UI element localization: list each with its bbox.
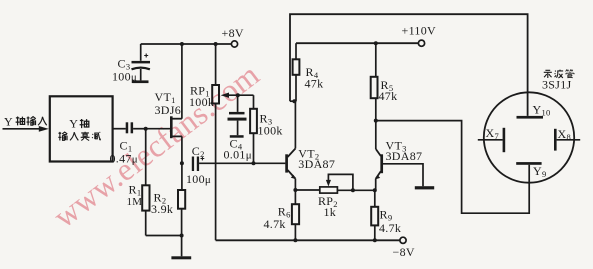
resistor R6 4.7k <box>264 190 300 240</box>
CRT tube circle 3SJ1J <box>484 92 574 182</box>
node: R2 bottom dot <box>180 234 184 238</box>
resistor R5 47k <box>371 43 398 120</box>
transistor VT1 3DJ6 (FET) <box>155 90 182 138</box>
ground (under C4) <box>230 135 244 138</box>
wire: gate node to VT1 <box>146 128 171 130</box>
resistor R4 47k <box>293 43 324 101</box>
node: VT3 emitter dot <box>373 188 377 192</box>
ground (VT3 base) <box>415 186 434 189</box>
svg-text:100μ: 100μ <box>186 172 211 186</box>
svg-text:1k: 1k <box>324 205 337 219</box>
ground (under C3) <box>132 80 148 83</box>
plate Y10 <box>517 103 551 119</box>
node: VT2 emitter dot <box>293 188 297 192</box>
svg-text:47k: 47k <box>305 77 324 91</box>
resistor R9 4.7k <box>371 190 401 240</box>
svg-text:3DA87: 3DA87 <box>386 149 423 163</box>
plate Y9 <box>516 162 546 179</box>
power rail -8V (bottom) <box>216 237 415 259</box>
wire: collector node jog <box>290 100 296 102</box>
svg-text:Y: Y <box>69 117 78 131</box>
potentiometer RP2 1k <box>295 174 374 218</box>
resistor R3 100k <box>250 95 283 163</box>
node: Y-axis input label 'Y 轴输入' <box>4 115 47 129</box>
resistor R1 1M <box>127 129 150 236</box>
node: R3/base junction dot <box>252 161 256 165</box>
transistor VT3 3DA87 (mirrored) <box>375 139 422 180</box>
svg-text:3DJ6: 3DJ6 <box>155 103 182 117</box>
capacitor C1 0.47u <box>110 122 146 165</box>
svg-text:3DA87: 3DA87 <box>298 157 335 171</box>
svg-text:1M: 1M <box>127 196 143 208</box>
wire: VT3 collector up <box>375 121 377 149</box>
wire: VT2 collector to CRT Y10 (top line) <box>290 14 528 116</box>
label: CRT name 示波管 3SJ1J <box>542 69 574 91</box>
wire: VT1 source down <box>181 136 183 190</box>
node: source/C2 junction dot <box>180 161 184 165</box>
block: Y-axis input attenuator box <box>50 96 113 161</box>
svg-text:4.7k: 4.7k <box>379 221 401 235</box>
power rail +8V <box>141 26 244 47</box>
wire: attenuator to C1 <box>113 128 126 130</box>
svg-text:0.47μ: 0.47μ <box>110 152 138 166</box>
wire: VT1 drain up to +8V rail <box>181 44 183 119</box>
svg-text:100k: 100k <box>189 95 214 109</box>
svg-text:47k: 47k <box>379 89 398 103</box>
capacitor C3 100u (bypass to ground) <box>112 44 150 83</box>
node: RP2 bridge dot <box>351 188 355 192</box>
capacitor C4 0.01u <box>224 95 252 161</box>
potentiometer RP1 100k <box>189 44 254 240</box>
power rail +110V <box>296 24 436 47</box>
svg-text:Y: Y <box>4 115 13 129</box>
svg-text:+110V: +110V <box>402 24 437 38</box>
wire: VT2 collector up <box>294 101 296 148</box>
capacitor C2 100u <box>186 144 211 186</box>
wire: VT3 emitter down <box>375 179 377 191</box>
wire: VT2 emitter down <box>294 179 296 190</box>
wire: R1/R2 bottom to ground <box>146 236 182 257</box>
node: VT3 collector junction dot <box>374 119 378 123</box>
wire: C2 to VT2 base <box>199 162 285 164</box>
node: wiper/C4 junction dot <box>236 93 240 97</box>
node: gate junction dot <box>144 127 148 131</box>
ground (under R1/R2) <box>171 256 191 259</box>
plate X8 <box>554 127 580 151</box>
resistor R2 3.9k <box>151 190 185 236</box>
svg-text:3SJ1J: 3SJ1J <box>542 78 572 92</box>
wire: input arrow into attenuator <box>3 126 49 132</box>
svg-text:4.7k: 4.7k <box>264 217 286 231</box>
svg-text:+8V: +8V <box>222 26 244 40</box>
wire: VT3 base to ground <box>382 164 423 186</box>
plate X7 <box>478 126 505 152</box>
wire: Y9 return path to VT3 collector <box>376 121 529 214</box>
svg-text:3.9k: 3.9k <box>151 202 173 216</box>
transistor VT2 3DA87 <box>287 146 336 179</box>
node: collector junction dot <box>292 99 296 103</box>
svg-text:100k: 100k <box>258 124 283 138</box>
svg-text:−8V: −8V <box>393 245 415 259</box>
svg-text:0.01μ: 0.01μ <box>224 148 252 162</box>
